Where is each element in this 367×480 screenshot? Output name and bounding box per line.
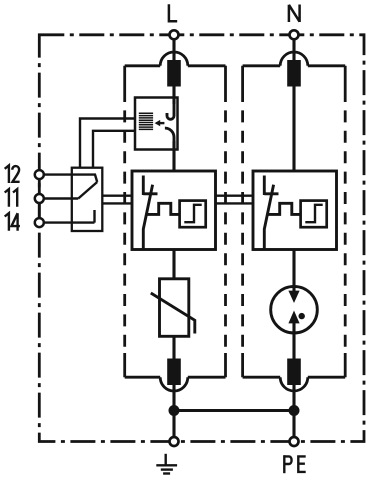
trigger wires F1 to F2 <box>216 196 254 204</box>
wire spark gap F1 to varistor R1 <box>172 250 175 279</box>
terminal 11 wire <box>41 197 78 199</box>
wire N terminal to plug contact <box>292 38 295 62</box>
terminal PE <box>290 437 299 446</box>
terminal 14 <box>35 218 44 227</box>
wire disconnector to remote contact upper <box>80 119 135 168</box>
gas discharge tube F3 circle <box>271 286 318 333</box>
wire varistor R1 to bottom contact <box>172 336 175 359</box>
plug-in contact bowl bottom L <box>160 377 188 391</box>
varistor R1 diagonal <box>151 293 195 334</box>
wire disconnector to spark gap F1 <box>172 141 175 171</box>
wire spark gap F2 to gas discharge tube F3 <box>292 250 295 293</box>
plug contact rect top N <box>287 60 301 87</box>
contact blade <box>78 182 97 199</box>
plug contact rect top L <box>167 60 181 87</box>
right module enclosure <box>243 66 346 377</box>
gas discharge tube lower electrode arrow <box>288 311 299 324</box>
disconnector U1 lower contact curl <box>165 128 174 145</box>
label 11 <box>5 189 18 207</box>
terminal 11 <box>35 194 44 203</box>
plug contact rect bottom L <box>167 359 181 386</box>
wire bottom contact to PE terminal <box>292 385 295 438</box>
terminal N <box>290 30 299 39</box>
disconnector U1 arrow <box>159 122 164 124</box>
wire L terminal to plug contact <box>172 38 175 62</box>
disconnector U1 thermal element hatch <box>139 113 153 129</box>
wire PE bus between junctions <box>174 409 294 412</box>
wire gas discharge tube F3 to bottom contact <box>292 322 295 359</box>
remote signalling contact K1 box <box>72 168 103 231</box>
solid border segment through terminals 12 11 14 <box>38 170 41 228</box>
wire L plug contact to disconnector U1 <box>172 87 175 105</box>
left module enclosure <box>125 66 226 377</box>
junction dot left <box>169 405 180 416</box>
disconnector U1 upper contact curl <box>167 104 174 119</box>
trigger wires K1 to F1 <box>102 196 132 204</box>
terminal ground <box>170 437 179 446</box>
plug-in contact dome top L <box>160 52 188 66</box>
varistor R1 body <box>160 279 189 337</box>
plug-in contact bowl bottom N <box>280 377 308 391</box>
gas discharge tube dot <box>299 313 305 319</box>
label PE <box>284 455 305 473</box>
spark gap F2 (triggered spark gap with control circuit) <box>253 171 337 250</box>
gas discharge tube upper electrode arrow <box>288 291 299 303</box>
ground symbol <box>156 454 177 474</box>
terminal 14 wire <box>41 210 95 223</box>
terminal 12 <box>35 170 44 179</box>
label 14 <box>5 213 20 231</box>
terminal L <box>170 30 179 39</box>
spark gap F1 (triggered spark gap with control circuit) <box>132 171 216 250</box>
label 12 <box>5 165 20 183</box>
label L <box>169 4 177 21</box>
label N <box>289 5 300 23</box>
outer device boundary dash-dot <box>39 35 364 442</box>
disconnector arrowhead <box>155 120 161 126</box>
wire disconnector to remote contact lower <box>93 131 135 168</box>
disconnector U1 box <box>135 98 178 150</box>
terminal 12 wire <box>41 175 97 182</box>
plug-in contact dome top N <box>280 52 308 66</box>
junction dot right <box>289 405 300 416</box>
wire N plug contact to spark gap F2 <box>292 87 295 172</box>
wire bottom contact to ground terminal <box>172 385 175 438</box>
plug contact rect bottom N <box>287 359 301 386</box>
